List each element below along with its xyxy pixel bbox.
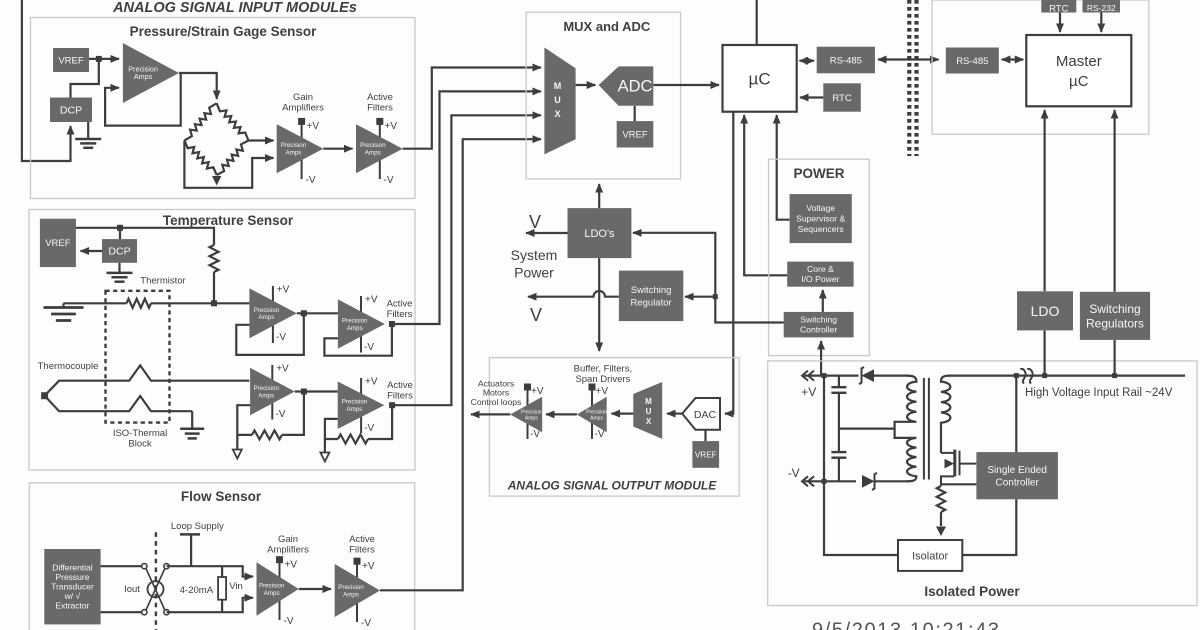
node U6 output junction [301, 389, 307, 395]
wire primary-side vertical to -V and isolator [824, 376, 898, 555]
svg-text:Switching: Switching [800, 315, 837, 325]
controller Single Ended Controller [976, 452, 1058, 499]
wire transducer top lead [101, 565, 142, 567]
svg-text:Vin: Vin [229, 581, 243, 592]
svg-text:Filters: Filters [349, 545, 375, 556]
wire high voltage rail [948, 375, 1185, 377]
rail U6 +V -V [272, 364, 289, 421]
svg-text:4-20mA: 4-20mA [180, 585, 214, 596]
svg-text:Precision: Precision [342, 318, 368, 325]
node junction rail LDO [1042, 373, 1047, 378]
wire U4 feedback [236, 313, 303, 355]
svg-text:System: System [511, 247, 558, 263]
node junction divider/thermistor [211, 300, 217, 306]
svg-text:-V: -V [788, 466, 800, 480]
svg-text:M: M [645, 397, 652, 406]
wire U8 to U9 [299, 588, 331, 590]
svg-text:Precision: Precision [259, 583, 285, 590]
wire core power to uC [744, 115, 787, 275]
node U7 output junction [389, 402, 395, 408]
svg-text:V: V [530, 305, 542, 325]
op-amp U8 Precision Amps flow gain [257, 562, 299, 615]
svg-text:Controller: Controller [995, 477, 1039, 488]
rail U7 +V -V [361, 377, 378, 435]
ground DCP temperature [118, 263, 120, 273]
svg-text:Amps: Amps [258, 392, 274, 399]
svg-text:Amps: Amps [134, 72, 153, 81]
wire transducer bottom lead [101, 611, 142, 613]
rail U5 +V -V [361, 295, 378, 354]
vref VREF (pressure) [53, 48, 89, 72]
svg-text:Amps: Amps [347, 406, 363, 413]
wire thermistor channel to MUX in2 [392, 91, 541, 324]
svg-text:9/5/2013 10:21:43: 9/5/2013 10:21:43 [812, 620, 999, 630]
box Flow Sensor [29, 483, 414, 630]
adc ADC [599, 66, 654, 105]
svg-text:Regulator: Regulator [630, 297, 671, 308]
wire RTC to uC [800, 96, 823, 98]
svg-text:Master: Master [1056, 53, 1102, 70]
svg-text:Switching: Switching [631, 285, 672, 296]
svg-text:-V: -V [530, 429, 540, 440]
break symbol rail [1021, 369, 1033, 384]
resistor bridge R top-left [184, 103, 216, 140]
transformer T1 primary [895, 376, 917, 482]
wire VREF to amp input [89, 58, 119, 60]
wire rail to controller vcc [1015, 376, 1017, 453]
box Temperature Sensor [29, 210, 415, 471]
wire loop top run [167, 566, 254, 576]
wire center tap [839, 428, 895, 430]
svg-text:Thermistor: Thermistor [140, 276, 185, 287]
vref VREF (ADC) [617, 121, 654, 147]
wire DCP control from top edge [22, 0, 71, 161]
wire DAC to VREF [704, 430, 706, 441]
svg-text:X: X [646, 417, 652, 426]
supply tap Loop Supply T [180, 533, 200, 536]
wire rail to LDO [1043, 330, 1045, 375]
wire pressure channel to MUX in1 [403, 68, 541, 149]
wire U5 feedback [324, 324, 392, 356]
svg-text:Motors: Motors [483, 388, 509, 398]
svg-text:Pressure: Pressure [55, 572, 89, 582]
box master controller area [932, 0, 1149, 134]
wire +V output rail with chevrons [804, 375, 859, 377]
svg-text:Transducer: Transducer [51, 582, 94, 592]
svg-text:RS-485: RS-485 [956, 56, 988, 67]
svg-text:Pressure/Strain Gage Sensor: Pressure/Strain Gage Sensor [130, 24, 318, 39]
ground thermistor left [62, 303, 64, 307]
ground sense arrow [940, 512, 942, 526]
rail U9 +V -V [354, 558, 375, 629]
svg-text:RS-232: RS-232 [1087, 3, 1116, 13]
svg-text:-V: -V [306, 175, 316, 186]
wire thermistor to amp U4 [151, 302, 249, 304]
dcp DCP (temperature) [102, 239, 137, 263]
wire flow channel to MUX in4 [380, 139, 541, 590]
svg-text:-V: -V [364, 342, 374, 353]
svg-text:X: X [554, 109, 560, 119]
svg-text:DAC: DAC [694, 409, 717, 421]
svg-text:Precision: Precision [254, 307, 280, 314]
wire DCP to VREF arrow [81, 250, 103, 252]
svg-text:LDO's: LDO's [584, 228, 615, 240]
svg-text:Isolator: Isolator [912, 550, 948, 562]
wire U6 output to U7 [295, 390, 338, 392]
op-amp U9 Precision Amps flow filter [335, 564, 380, 617]
svg-text:+V: +V [362, 561, 375, 572]
svg-text:Voltage: Voltage [806, 203, 835, 213]
rtc RTC top (clipped) [1041, 0, 1076, 15]
micro Master uC box [1026, 35, 1131, 106]
svg-text:+V: +V [531, 386, 544, 397]
wire LDO to Master uC [1043, 110, 1045, 291]
wire output MUX to buffer1 [612, 413, 634, 415]
svg-text:Flow Sensor: Flow Sensor [181, 489, 262, 504]
mux output MUX [633, 382, 662, 439]
wire RS-485 to Master uC double arrow [1002, 58, 1024, 60]
svg-text:+V: +V [801, 385, 816, 399]
node thermocouple junction [41, 392, 48, 399]
vref VREF (DAC) [692, 441, 719, 468]
wire uC top to edge [756, 0, 758, 45]
resistor bridge R bottom-left [184, 141, 216, 176]
wire -V output rail with chevrons [804, 480, 856, 482]
svg-text:Isolated Power: Isolated Power [924, 584, 1020, 599]
capacitor C2 [831, 452, 846, 458]
rtc RTC left [823, 83, 861, 111]
transceiver RS-485 right [946, 48, 999, 74]
barrier isolation dotted [909, 0, 916, 156]
node U6 feedback reference arrow [236, 435, 238, 449]
wire U1 feedback loop [105, 73, 181, 126]
svg-text:Buffer, Filters,: Buffer, Filters, [574, 364, 632, 375]
svg-text:-V: -V [364, 423, 374, 434]
dac DAC [682, 398, 720, 430]
svg-text:Active: Active [349, 534, 375, 545]
wire thermocouple upper lead [45, 365, 250, 395]
svg-text:Control loops: Control loops [471, 397, 522, 407]
op-amp U4 Precision Amps thermistor [249, 288, 296, 338]
resistor bridge R top-right [217, 103, 249, 140]
ground bridge bottom arrow [212, 176, 221, 186]
svg-text:VREF: VREF [45, 238, 71, 249]
svg-text:MUX and ADC: MUX and ADC [563, 19, 651, 34]
svg-text:U: U [646, 407, 652, 416]
svg-text:Regulators: Regulators [1086, 316, 1144, 330]
svg-text:Amps: Amps [286, 150, 302, 157]
node junction -V [822, 479, 827, 484]
capacitor C1 [838, 376, 840, 388]
svg-text:µC: µC [1069, 73, 1089, 90]
node junction above DCP [117, 225, 123, 231]
box Isolated Power [768, 361, 1197, 606]
diode D2 schottky -V [862, 473, 877, 490]
svg-text:w/ √: w/ √ [64, 591, 81, 601]
svg-text:Amps: Amps [525, 416, 538, 422]
svg-text:Extractor: Extractor [55, 601, 89, 611]
wire buffer1 to buffer2 [546, 413, 577, 415]
twisted pair terminals and crossover [142, 564, 169, 615]
box Pressure/Strain Gage Sensor [31, 18, 416, 199]
svg-text:M: M [554, 81, 562, 91]
wire RS-485 isolation double arrow [878, 58, 939, 60]
power Core & I/O Power [787, 262, 853, 287]
svg-text:ANALOG SIGNAL INPUT MODULEs: ANALOG SIGNAL INPUT MODULEs [112, 0, 357, 16]
svg-text:Filters: Filters [387, 309, 413, 320]
svg-text:Switching: Switching [1089, 302, 1140, 316]
svg-text:Amps: Amps [347, 325, 363, 332]
dcp DCP (pressure) [50, 98, 92, 123]
box ANALOG SIGNAL OUTPUT MODULE [489, 358, 739, 497]
rail U2 +V -V [298, 118, 319, 186]
svg-text:+V: +V [596, 386, 609, 397]
svg-text:Block: Block [128, 439, 151, 450]
wire uC to DAC vertical [725, 112, 733, 414]
mosfet Q1 [941, 450, 976, 486]
wire ADC to VREF [634, 106, 636, 121]
wire thermistor row input [64, 302, 127, 304]
svg-text:Filters: Filters [387, 391, 413, 402]
svg-text:Differential: Differential [52, 563, 93, 573]
resistor bridge R bottom-right [217, 141, 249, 176]
svg-text:Single Ended: Single Ended [987, 465, 1047, 476]
svg-text:RTC: RTC [1049, 4, 1068, 15]
svg-text:+V: +V [365, 377, 378, 388]
svg-text:+V: +V [307, 121, 320, 132]
svg-text:Loop Supply: Loop Supply [171, 521, 224, 532]
transceiver RS-485 left [817, 47, 875, 74]
regulator Switching Regulators [1080, 292, 1150, 340]
transceiver RS-232 top (clipped) [1083, 0, 1121, 13]
node junction switching regulator tap [713, 294, 718, 299]
svg-text:Amps: Amps [264, 590, 280, 597]
wire bridge left output to gain amp [184, 141, 273, 188]
svg-text:Supervisor &: Supervisor & [796, 214, 845, 224]
wire thermocouple lower lead [45, 396, 193, 412]
wire ADC to uC [653, 84, 719, 86]
supervisor Voltage Supervisor & Sequencers [790, 194, 852, 243]
svg-text:Iout: Iout [124, 584, 140, 595]
svg-text:POWER: POWER [793, 166, 844, 181]
svg-text:+V: +V [276, 364, 289, 375]
svg-text:I/O Power: I/O Power [801, 274, 839, 284]
node U4 output junction [301, 310, 307, 316]
rail U3 +V -V [376, 118, 397, 186]
wire barrier dashed (flow sensor) [155, 532, 157, 630]
svg-text:DCP: DCP [60, 104, 82, 116]
micro uC box [723, 45, 797, 112]
node junction VREF output [96, 56, 102, 62]
ldo LDO (high voltage) [1017, 291, 1073, 330]
resistor thermistor element [127, 299, 152, 308]
resistor divider R (temperature) [210, 245, 219, 272]
svg-text:V: V [529, 212, 541, 232]
op-amp U5 Precision Amps active filter thermistor [338, 299, 385, 348]
svg-text:Precision: Precision [281, 142, 307, 149]
svg-text:-V: -V [275, 409, 285, 420]
rail U11 +V -V [524, 384, 544, 441]
node U5 output junction [389, 321, 395, 327]
ground thermocouple lower [191, 411, 193, 429]
wire LDOs up to MUX box [598, 184, 600, 208]
transducer Differential Pressure Transducer w/ sqrt Extractor [44, 549, 100, 624]
svg-text:VREF: VREF [58, 55, 84, 66]
node junction rail controller [1014, 373, 1019, 378]
regulator Switching Regulator [619, 271, 683, 322]
svg-text:Filters: Filters [367, 103, 393, 114]
svg-text:Active: Active [387, 380, 413, 391]
wire U6 feedback with resistor [282, 392, 304, 435]
op-amp U2 Precision Amps gain amplifier [277, 124, 324, 173]
node U7 feedback reference arrow [324, 439, 326, 452]
iso-thermal dashed block [106, 291, 170, 423]
svg-text:Precision: Precision [342, 399, 368, 406]
wire DAC to output MUX [667, 413, 682, 415]
svg-text:+V: +V [277, 285, 290, 296]
svg-text:Gain: Gain [293, 92, 313, 103]
svg-text:Gain: Gain [278, 534, 298, 545]
op-amp U10 buffer amp 1 [577, 397, 607, 433]
wire +V to Switching Controller [820, 341, 822, 376]
op-amp U6 Precision Amps thermocouple [250, 368, 295, 415]
svg-text:DCP: DCP [108, 246, 130, 258]
svg-text:VREF: VREF [695, 450, 717, 459]
wire Switching Regulators to Master uC [1113, 110, 1115, 292]
svg-text:RTC: RTC [832, 93, 851, 104]
node junction rail regulators [1112, 373, 1117, 378]
svg-text:Sequencers: Sequencers [798, 224, 844, 234]
svg-text:ANALOG SIGNAL OUTPUT MODULE: ANALOG SIGNAL OUTPUT MODULE [507, 479, 717, 493]
svg-text:Span Drivers: Span Drivers [575, 374, 630, 385]
svg-text:+V: +V [385, 121, 398, 132]
node junction +V / controller feed [822, 373, 827, 378]
mux input MUX [544, 48, 575, 155]
wire junction to DCP top [119, 228, 121, 239]
svg-text:ISO-Thermal: ISO-Thermal [113, 428, 167, 439]
svg-text:-V: -V [284, 616, 294, 627]
wire U4 output to U5 [297, 312, 338, 314]
svg-text:Amps: Amps [365, 150, 381, 157]
svg-text:µC: µC [749, 69, 771, 88]
op-amp U11 buffer amp 2 [510, 397, 542, 433]
svg-text:ADC: ADC [618, 78, 653, 96]
svg-text:Active: Active [387, 299, 413, 310]
svg-text:Active: Active [367, 92, 393, 103]
wire loop bottom run [167, 598, 254, 612]
wire supervisor to uC [777, 115, 790, 220]
transformer T1 core [924, 378, 929, 480]
svg-text:Precision: Precision [338, 584, 364, 591]
wire LDOs left V arrow [526, 232, 568, 234]
op-amp U7 Precision Amps active filter thermocouple [338, 382, 385, 429]
svg-text:-V: -V [276, 332, 286, 343]
svg-text:RS-485: RS-485 [830, 55, 862, 66]
wire controller to isolator [962, 499, 1016, 555]
svg-text:+V: +V [365, 295, 378, 306]
svg-text:Core &: Core & [807, 264, 834, 274]
wire U7 feedback with resistor [368, 405, 392, 439]
wire controller current sense [941, 483, 976, 485]
vref VREF (temperature) [40, 219, 76, 267]
ldo LDO's [568, 208, 632, 258]
svg-text:Thermocouple: Thermocouple [38, 361, 99, 372]
wire rail to Switching Regulators [1113, 340, 1115, 376]
resistor Vin sense [221, 566, 223, 577]
svg-text:VREF: VREF [622, 130, 648, 141]
wire VREF top rail to divider resistor [76, 228, 214, 245]
svg-text:Controller: Controller [800, 325, 837, 335]
wire U2 to U3 [323, 148, 352, 150]
transformer T1 secondary [941, 376, 950, 453]
wire thermocouple channel to MUX in3 [392, 115, 541, 405]
wire uC RS-485 double arrow [800, 60, 815, 62]
svg-text:-V: -V [384, 175, 394, 186]
svg-text:-V: -V [361, 618, 371, 629]
rail U10 +V -V [589, 384, 609, 441]
svg-text:+V: +V [285, 560, 298, 571]
box POWER [769, 159, 870, 355]
wire junction to DCP top [71, 59, 99, 98]
isolator Isolator [898, 540, 962, 571]
svg-text:High Voltage Input Rail ~24V: High Voltage Input Rail ~24V [1025, 387, 1173, 399]
svg-text:LDO: LDO [1031, 303, 1060, 319]
svg-text:Amps: Amps [343, 591, 359, 598]
wire MUX to ADC [576, 84, 596, 86]
box MUX and ADC [526, 12, 681, 179]
svg-text:U: U [554, 95, 561, 105]
wire U1 output to bridge top [179, 73, 217, 99]
resistor sense R [937, 486, 945, 512]
op-amp U3 Precision Amps active filter [356, 124, 403, 173]
rail U4 +V -V [273, 285, 290, 344]
svg-text:Amplifiers: Amplifiers [282, 103, 324, 114]
wire RS-232 to Master uC [1100, 13, 1102, 33]
wire Switching Controller to Core power [822, 290, 824, 312]
ground DCP pressure [87, 122, 89, 139]
wire LDOs down to output module [598, 258, 600, 351]
svg-text:Power: Power [514, 265, 554, 281]
svg-text:Precision: Precision [360, 142, 386, 149]
svg-text:Amps: Amps [259, 314, 275, 321]
diode D1 schottky +V [859, 367, 874, 384]
wire Switching Regulator left V arrow with hop [528, 291, 619, 297]
rail U8 +V -V [276, 556, 297, 627]
wire RTC to Master uC [1059, 13, 1061, 33]
svg-text:Amplifiers: Amplifiers [267, 545, 309, 556]
controller Switching Controller [784, 312, 854, 338]
svg-text:Precision: Precision [253, 385, 279, 392]
op-amp U1 Precision Amps (bridge driver) [123, 43, 179, 103]
wire bridge right output to gain amp [248, 139, 273, 141]
wire junction to Switching Regulator [685, 296, 715, 298]
wire output to actuators [471, 413, 510, 415]
svg-text:Temperature Sensor: Temperature Sensor [163, 213, 294, 228]
svg-text:-V: -V [595, 429, 605, 440]
wire Switching Controller to LDOs [633, 233, 784, 323]
svg-text:Amps: Amps [590, 416, 603, 422]
